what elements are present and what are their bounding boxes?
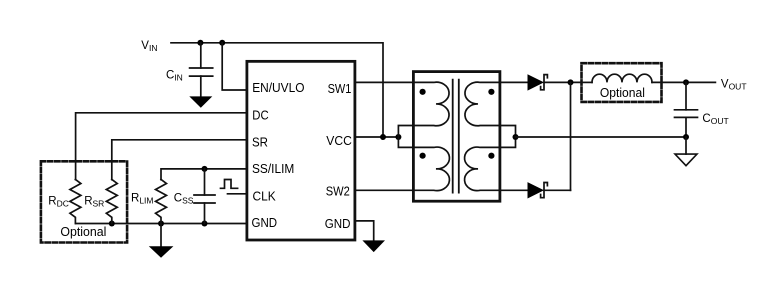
- ground (input, below CIN): [189, 96, 212, 107]
- wire DC: [76, 113, 247, 180]
- pin EN/UVLO: [252, 81, 305, 95]
- pin GND right: [325, 217, 351, 231]
- junction dot RSR bottom: [109, 221, 115, 227]
- transformer secondary winding 2: [465, 147, 500, 191]
- wire D2 anode: [500, 189, 528, 191]
- diode D2 (schottky): [528, 182, 548, 198]
- wire inductor left: [582, 81, 593, 83]
- pin SW2: [326, 185, 350, 199]
- svg-text:VOUT: VOUT: [721, 78, 747, 91]
- capacitor CIN label: [166, 69, 183, 82]
- pin GND left: [252, 216, 278, 230]
- junction dot center-tap left: [395, 134, 401, 140]
- pin CLK: [253, 190, 277, 204]
- wire SS/ILIM: [161, 169, 247, 180]
- ground (input, below RLIM): [149, 246, 174, 257]
- svg-text:VCC: VCC: [326, 134, 352, 148]
- diode D1 (schottky): [528, 74, 548, 90]
- wire inductor right: [652, 81, 715, 83]
- resistor RSR label: [84, 195, 104, 208]
- clock pulse symbol: [221, 180, 238, 189]
- resistor RLIM: [156, 179, 167, 223]
- svg-text:COUT: COUT: [702, 113, 728, 126]
- svg-text:RSR: RSR: [84, 195, 104, 208]
- pin SR: [252, 135, 268, 149]
- label Optional left: [60, 225, 106, 239]
- svg-text:DC: DC: [252, 108, 268, 122]
- svg-text:RLIM: RLIM: [131, 193, 153, 206]
- svg-text:GND: GND: [252, 216, 278, 230]
- junction dot EN branch: [219, 40, 225, 46]
- wire center-tap left connector: [398, 126, 413, 148]
- junction dot VOUT: [683, 79, 689, 85]
- svg-text:GND: GND: [325, 217, 351, 231]
- pin DC: [252, 108, 268, 122]
- svg-text:SW2: SW2: [326, 185, 350, 199]
- transformer T1 box: [413, 72, 500, 202]
- transformer core lines: [453, 80, 459, 193]
- wire VIN rail: [171, 43, 383, 137]
- phase dot primary 2: [420, 153, 426, 159]
- junction dot CIN/VIN: [197, 40, 203, 46]
- wire GND rail: [76, 223, 247, 225]
- pin VCC: [326, 134, 352, 148]
- resistor RDC label: [48, 195, 69, 208]
- wire D2 cathode: [544, 189, 571, 191]
- capacitor CSS label: [174, 193, 194, 206]
- transformer primary winding 2: [413, 147, 449, 191]
- svg-text:SW1: SW1: [328, 82, 352, 96]
- phase dot primary 1: [420, 89, 426, 95]
- node VIN label: [141, 40, 157, 53]
- junction dot center-tap right: [513, 134, 519, 140]
- capacitor COUT: [675, 82, 698, 137]
- wire VCC: [355, 136, 398, 138]
- junction dot COUT bottom: [683, 134, 689, 140]
- wire SR: [112, 140, 247, 180]
- transformer secondary winding 1: [465, 82, 500, 126]
- wire ground stub: [160, 224, 162, 247]
- wire output ground stub: [685, 137, 687, 154]
- wire diode join vertical: [570, 82, 572, 190]
- wire SW1: [355, 81, 413, 83]
- junction dot CSS top: [202, 166, 208, 172]
- svg-text:Optional: Optional: [600, 86, 645, 100]
- ground (IC GND right): [362, 240, 385, 252]
- capacitor CSS: [194, 169, 215, 224]
- capacitor COUT label: [702, 113, 728, 126]
- pin SS/ILIM: [252, 162, 294, 176]
- svg-text:SS/ILIM: SS/ILIM: [252, 162, 294, 176]
- junction dot D1 out: [568, 79, 574, 85]
- junction dot VIN/VCC: [380, 134, 386, 140]
- wire secondary return: [516, 136, 687, 138]
- svg-text:CIN: CIN: [166, 69, 183, 82]
- svg-text:CSS: CSS: [174, 193, 194, 206]
- junction dot RLIM bottom: [158, 221, 164, 227]
- wire SW2: [355, 189, 413, 191]
- IC U1 (push-pull driver): [247, 61, 355, 240]
- phase dot secondary 2: [488, 153, 494, 159]
- svg-text:RDC: RDC: [48, 195, 69, 208]
- wire D1 anode: [500, 81, 528, 83]
- optional box left (dashed): [41, 161, 127, 242]
- ground (output, open triangle): [675, 154, 697, 166]
- svg-text:VIN: VIN: [141, 40, 157, 53]
- wire CLK stub: [228, 193, 248, 195]
- label Optional right: [600, 86, 645, 100]
- transformer primary winding 1: [413, 82, 449, 126]
- phase dot secondary 1: [488, 89, 494, 95]
- junction dot CSS bottom: [202, 221, 208, 227]
- wire GND right pin: [355, 221, 374, 241]
- wire center-tap right connector: [500, 126, 516, 148]
- svg-text:Optional: Optional: [60, 225, 106, 239]
- optional box right (dashed): [582, 63, 662, 102]
- resistor RLIM label: [131, 193, 153, 206]
- resistor RDC: [70, 179, 81, 223]
- resistor RSR: [106, 179, 117, 223]
- svg-text:CLK: CLK: [253, 190, 277, 204]
- capacitor CIN: [190, 43, 213, 97]
- wire EN/UVLO branch: [222, 43, 247, 90]
- svg-text:SR: SR: [252, 135, 268, 149]
- inductor L1 (optional): [592, 74, 652, 82]
- node VOUT label: [721, 78, 747, 91]
- svg-text:EN/UVLO: EN/UVLO: [252, 81, 305, 95]
- wire D1 cathode: [544, 81, 582, 83]
- pin SW1: [328, 82, 352, 96]
